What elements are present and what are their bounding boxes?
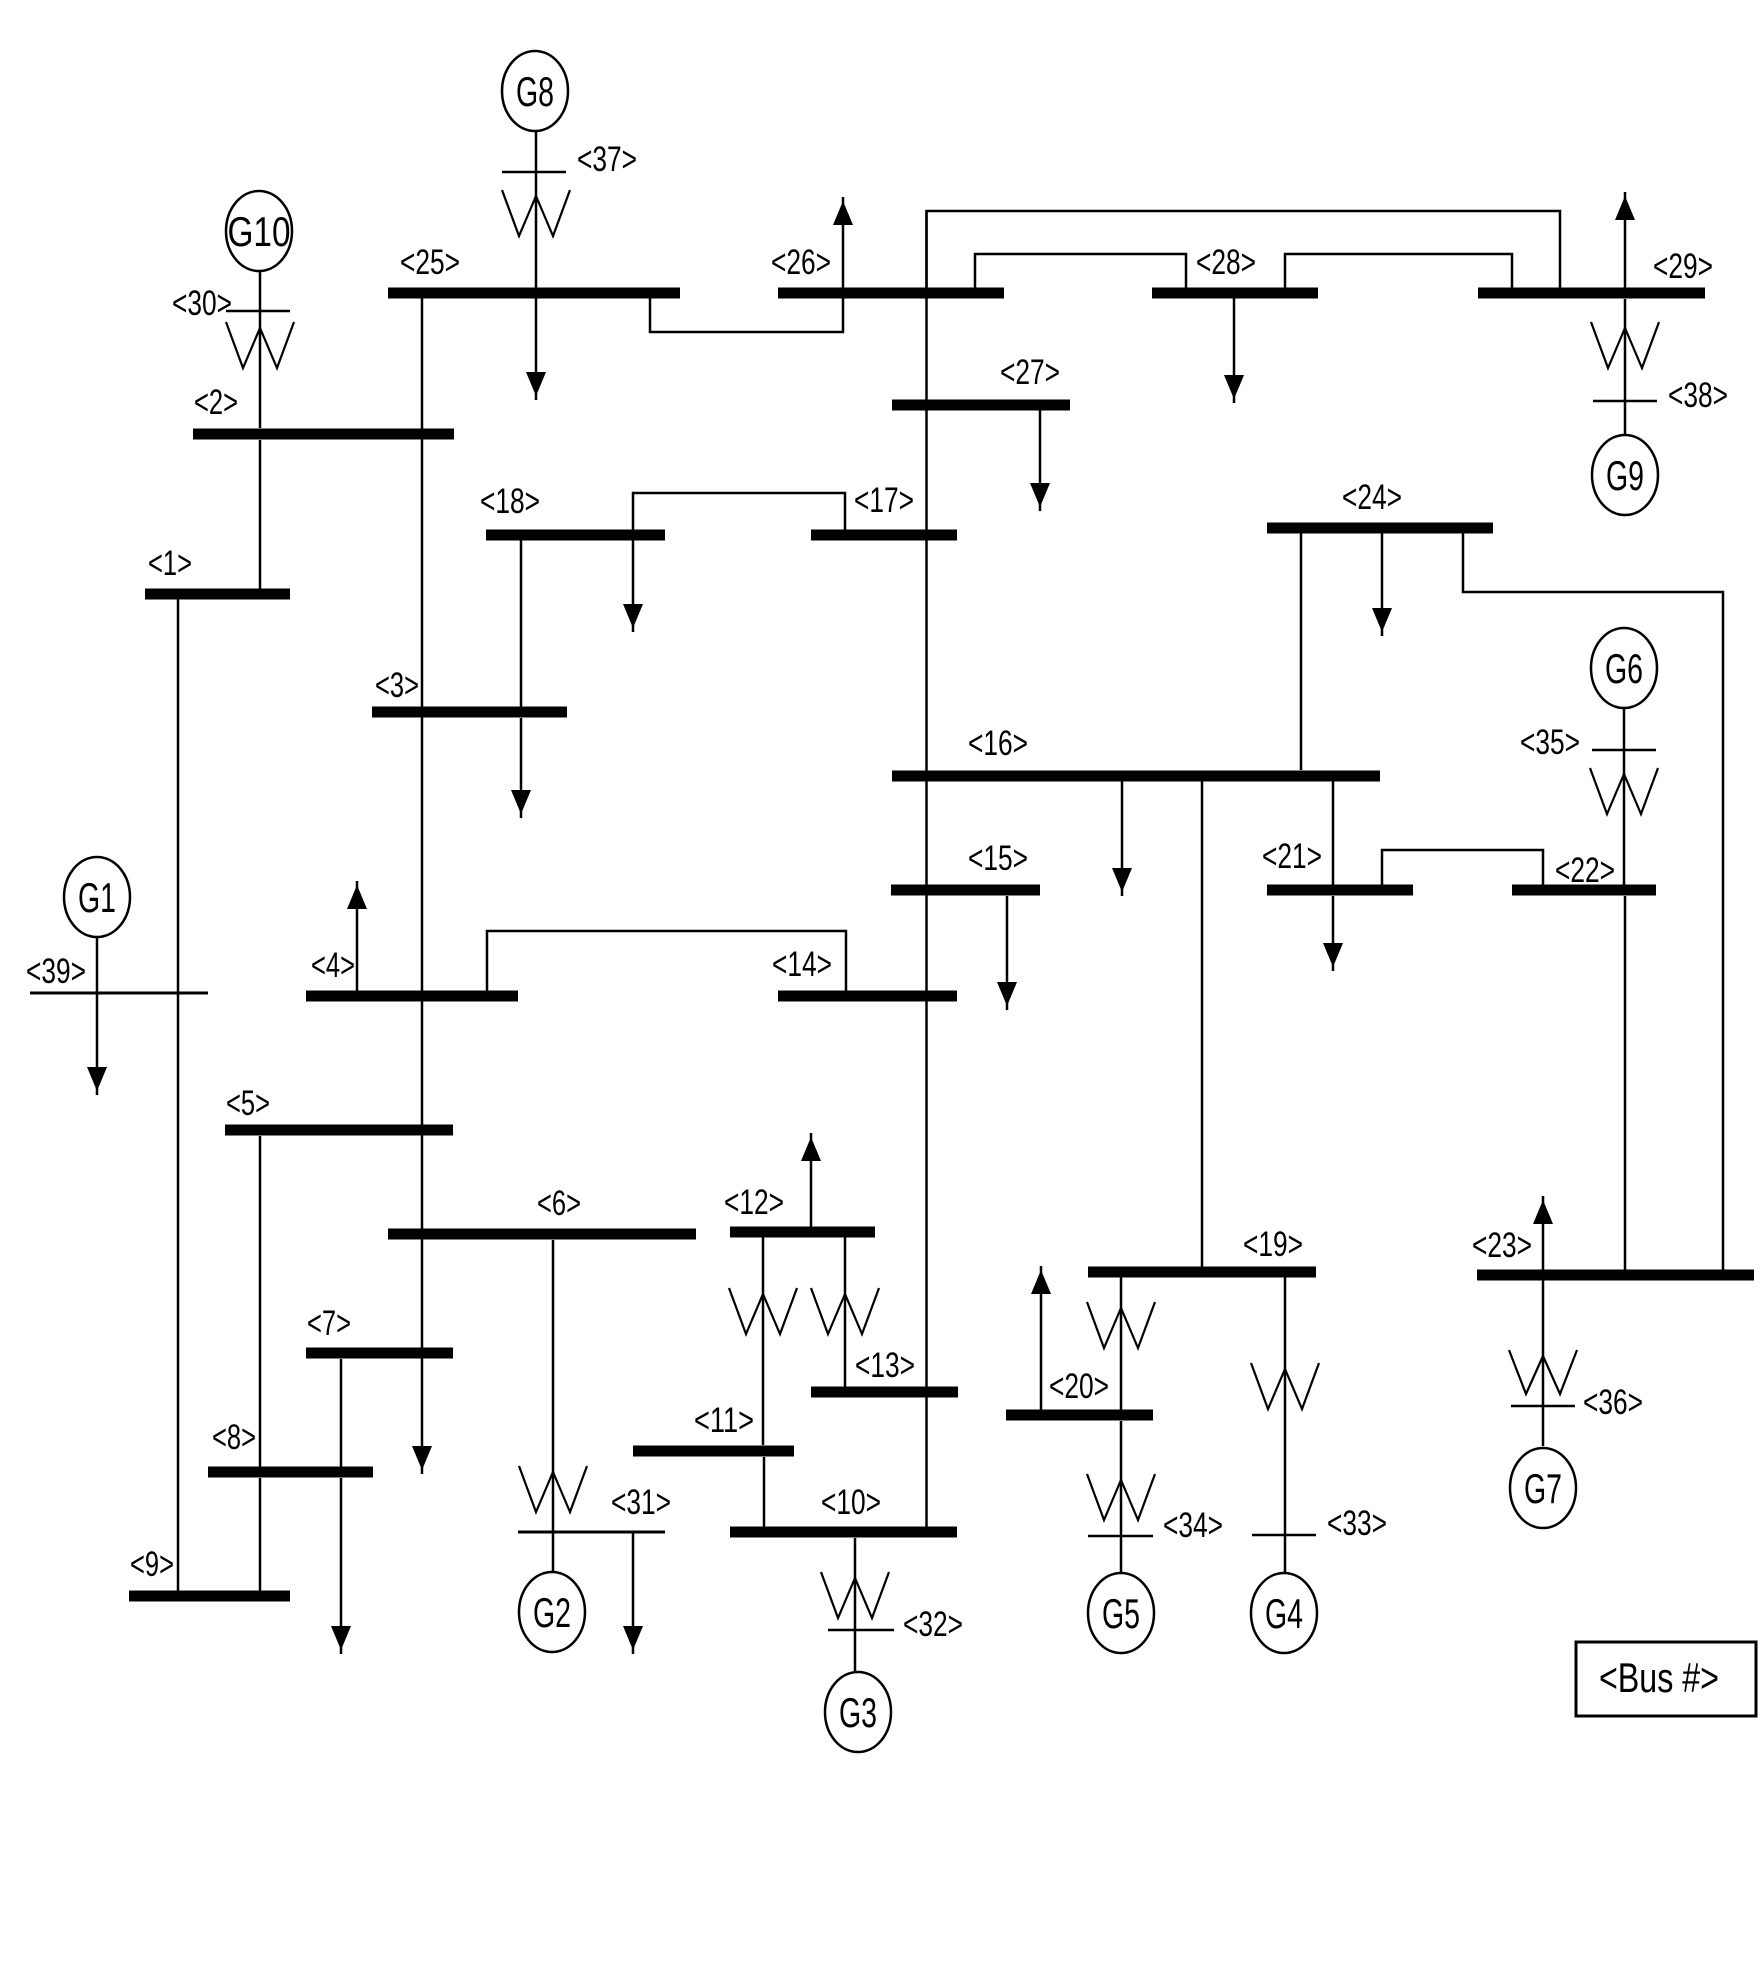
svg-text:<13>: <13> bbox=[855, 1346, 915, 1385]
svg-text:<28>: <28> bbox=[1196, 243, 1256, 282]
svg-text:<21>: <21> bbox=[1262, 837, 1322, 876]
svg-text:<11>: <11> bbox=[694, 1401, 754, 1440]
svg-text:<35>: <35> bbox=[1520, 723, 1580, 762]
svg-text:<32>: <32> bbox=[903, 1605, 963, 1644]
svg-text:<9>: <9> bbox=[130, 1545, 174, 1584]
svg-text:<4>: <4> bbox=[311, 946, 355, 985]
svg-text:G7: G7 bbox=[1524, 1465, 1562, 1512]
svg-text:<2>: <2> bbox=[194, 383, 238, 422]
svg-text:<27>: <27> bbox=[1000, 353, 1060, 392]
svg-text:<39>: <39> bbox=[26, 952, 86, 991]
svg-text:<22>: <22> bbox=[1555, 851, 1615, 890]
svg-text:<33>: <33> bbox=[1327, 1504, 1387, 1543]
svg-text:G8: G8 bbox=[516, 68, 554, 115]
svg-text:<34>: <34> bbox=[1163, 1506, 1223, 1545]
svg-text:<1>: <1> bbox=[148, 544, 192, 583]
svg-text:<29>: <29> bbox=[1653, 247, 1713, 286]
svg-text:<25>: <25> bbox=[400, 243, 460, 282]
svg-text:<16>: <16> bbox=[968, 724, 1028, 763]
svg-text:<17>: <17> bbox=[854, 481, 914, 520]
svg-text:<26>: <26> bbox=[771, 243, 831, 282]
svg-text:G6: G6 bbox=[1605, 645, 1643, 692]
svg-text:<6>: <6> bbox=[537, 1184, 581, 1223]
svg-text:<8>: <8> bbox=[212, 1418, 256, 1457]
svg-text:G3: G3 bbox=[839, 1689, 877, 1736]
svg-text:G1: G1 bbox=[78, 874, 116, 921]
svg-text:<24>: <24> bbox=[1342, 478, 1402, 517]
svg-text:<38>: <38> bbox=[1668, 376, 1728, 415]
svg-text:<15>: <15> bbox=[968, 839, 1028, 878]
svg-text:G2: G2 bbox=[533, 1589, 571, 1636]
svg-text:G4: G4 bbox=[1265, 1590, 1303, 1637]
svg-text:<14>: <14> bbox=[772, 945, 832, 984]
svg-text:<10>: <10> bbox=[821, 1483, 881, 1522]
svg-text:<18>: <18> bbox=[480, 482, 540, 521]
svg-text:<19>: <19> bbox=[1243, 1225, 1303, 1264]
svg-text:<37>: <37> bbox=[577, 140, 637, 179]
svg-text:<Bus #>: <Bus #> bbox=[1599, 1654, 1719, 1701]
svg-text:<7>: <7> bbox=[307, 1304, 351, 1343]
svg-text:<23>: <23> bbox=[1472, 1226, 1532, 1265]
svg-text:<3>: <3> bbox=[375, 666, 419, 705]
svg-text:G5: G5 bbox=[1102, 1590, 1140, 1637]
svg-text:<5>: <5> bbox=[226, 1084, 270, 1123]
svg-text:<36>: <36> bbox=[1583, 1383, 1643, 1422]
svg-text:G10: G10 bbox=[228, 208, 291, 255]
svg-text:<31>: <31> bbox=[611, 1483, 671, 1522]
svg-text:<20>: <20> bbox=[1049, 1367, 1109, 1406]
svg-text:<12>: <12> bbox=[724, 1183, 784, 1222]
svg-text:<30>: <30> bbox=[172, 284, 232, 323]
svg-text:G9: G9 bbox=[1606, 452, 1644, 499]
